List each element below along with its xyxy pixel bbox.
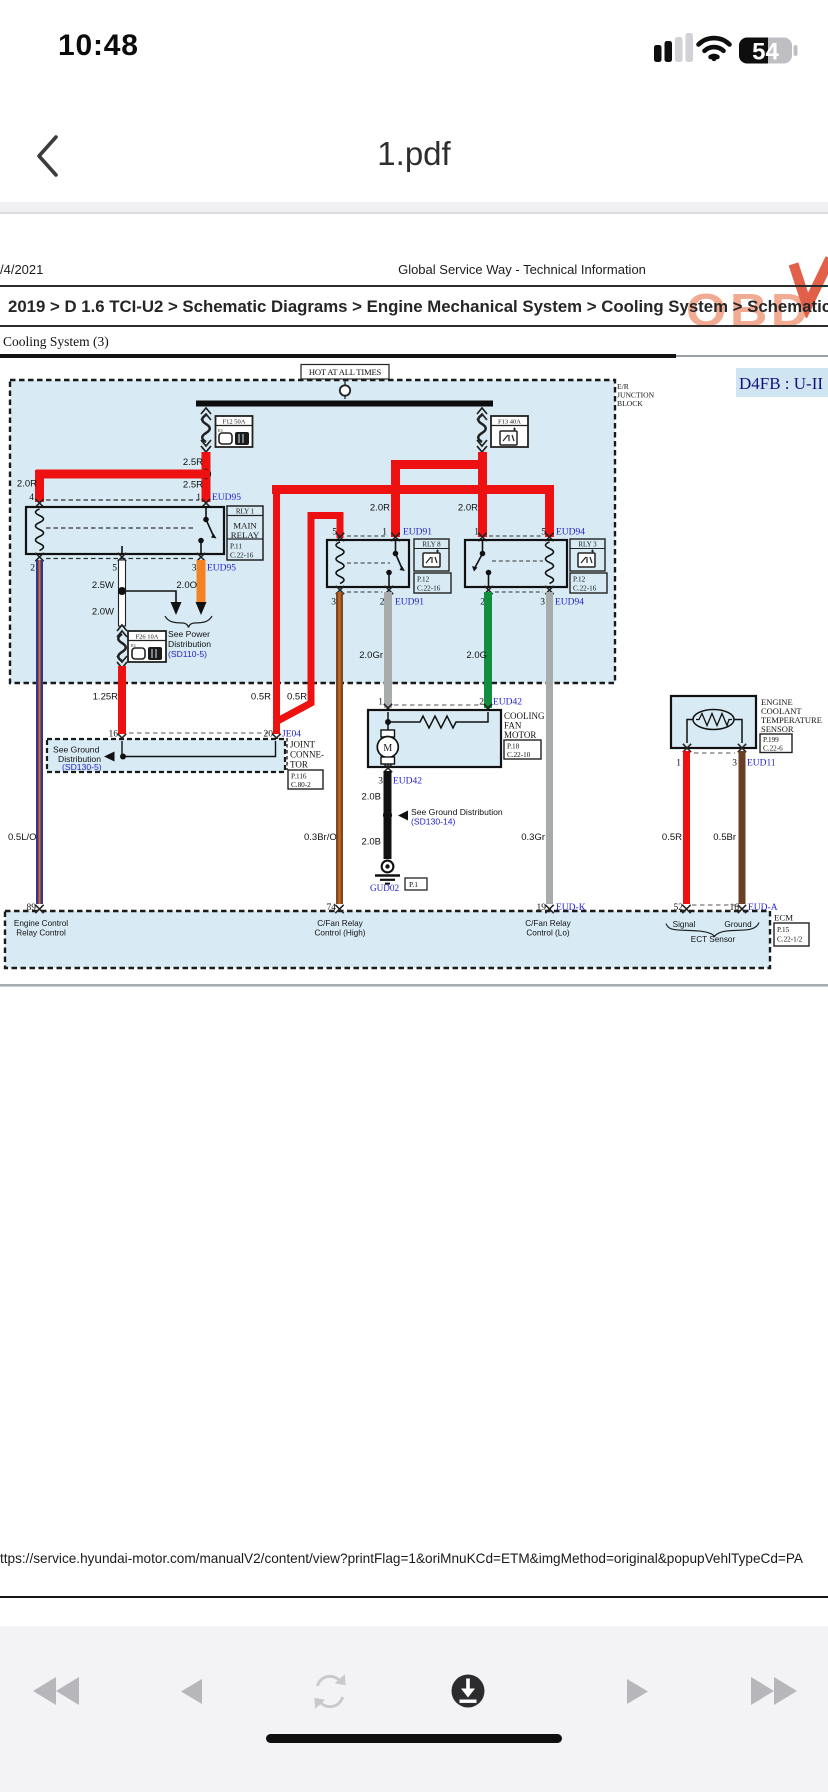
svg-text:P.116: P.116: [291, 773, 307, 781]
svg-text:0.3Br/O: 0.3Br/O: [304, 832, 337, 843]
RLY3 pins top: [474, 528, 585, 542]
svg-text:C.80-2: C.80-2: [291, 781, 311, 789]
svg-text:1: 1: [474, 528, 479, 538]
svg-text:2.0B: 2.0B: [361, 792, 381, 803]
svg-text:JOINT: JOINT: [290, 740, 315, 750]
svg-text:2.5W: 2.5W: [92, 580, 114, 591]
wire 2.5W/2.0W white: [118, 560, 126, 626]
svg-text:C.22-1/2: C.22-1/2: [777, 936, 803, 944]
svg-text:(SD130-5): (SD130-5): [62, 762, 102, 772]
svg-text:F13 40A: F13 40A: [498, 419, 521, 426]
svg-text:0.5L/O: 0.5L/O: [8, 832, 37, 843]
relay RLY3 label block: [570, 539, 607, 593]
fuse F12 50A: [201, 408, 253, 452]
svg-text:1: 1: [676, 759, 681, 769]
svg-text:EUD42: EUD42: [393, 777, 422, 787]
thermistor: [687, 710, 742, 744]
svg-text:HOT AT ALL TIMES: HOT AT ALL TIMES: [309, 367, 382, 377]
svg-text:0.3Gr: 0.3Gr: [521, 832, 545, 843]
svg-text:(SD110-5): (SD110-5): [168, 649, 207, 659]
svg-text:3: 3: [192, 564, 197, 574]
svg-text:RELAY: RELAY: [231, 530, 260, 540]
svg-text:P.15: P.15: [777, 926, 790, 934]
svg-text:C.22-6: C.22-6: [763, 745, 783, 753]
footer url: [0, 1551, 828, 1566]
ECM box: [5, 911, 770, 968]
svg-text:BLOCK: BLOCK: [617, 399, 643, 408]
footer rule: [0, 1596, 828, 1599]
wire 1.25R fuse F26 to JE04 pin 16: [118, 666, 126, 734]
ground GUD02: [370, 861, 427, 893]
svg-text:EUD94: EUD94: [556, 528, 585, 538]
nav title: [0, 135, 828, 173]
ECM pin 74: [327, 903, 344, 913]
svg-text:3: 3: [331, 598, 336, 608]
svg-text:0.5Br: 0.5Br: [713, 832, 736, 843]
ground distribution link wire: [104, 741, 276, 762]
ECM pin 89: [27, 903, 44, 913]
wire 0.5Br ECT to ECM pin 16: [739, 751, 746, 904]
red feed bus horizontal A: [272, 485, 554, 494]
motor internal resistor: [385, 712, 488, 728]
svg-text:2: 2: [30, 564, 35, 574]
svg-text:MOTOR: MOTOR: [504, 730, 536, 740]
svg-text:See Ground: See Ground: [53, 745, 100, 755]
svg-text:EUD-K: EUD-K: [556, 903, 586, 913]
status icons: [640, 30, 810, 70]
svg-text:SENSOR: SENSOR: [761, 724, 794, 734]
svg-text:2.0R: 2.0R: [458, 503, 478, 514]
svg-text:FAN: FAN: [504, 721, 522, 731]
RLY8 pins top: [332, 528, 432, 542]
svg-text:M: M: [383, 743, 392, 754]
svg-text:3: 3: [732, 759, 737, 769]
RLY8 coil: [336, 542, 344, 584]
svg-text:F26 10A: F26 10A: [136, 634, 159, 641]
node pin 4 main relay: [29, 493, 43, 507]
svg-text:Signal: Signal: [673, 920, 696, 929]
RLY3 pins bottom: [480, 586, 584, 608]
main relay coil: [36, 509, 44, 551]
svg-text:2.0W: 2.0W: [92, 607, 114, 618]
signal/ground brace: [666, 923, 759, 937]
svg-text:3: 3: [378, 777, 383, 787]
svg-text:1: 1: [378, 698, 383, 708]
relay RLY8 box: [327, 540, 409, 587]
connector dashed line JE04: [129, 732, 268, 734]
svg-text:EUD95: EUD95: [212, 493, 241, 503]
breadcrumb rules: [0, 285, 828, 287]
wire 0.5R ECT to ECM pin 52: [683, 751, 690, 904]
svg-text:(SD130-14): (SD130-14): [411, 817, 456, 827]
node pin 3 motor: [378, 764, 422, 787]
svg-text:C.22-16: C.22-16: [573, 585, 597, 593]
svg-text:2.0Gr: 2.0Gr: [359, 650, 383, 661]
see ground distribution box SD130-5: [47, 739, 285, 772]
RLY8 switch: [386, 540, 405, 587]
svg-text:JE04: JE04: [282, 730, 301, 740]
svg-text:C/Fan Relay: C/Fan Relay: [317, 919, 363, 928]
svg-text:1: 1: [196, 493, 201, 503]
svg-text:EUD42: EUD42: [493, 698, 522, 708]
svg-text:Control (High): Control (High): [315, 929, 366, 938]
page bottom divider: [0, 984, 828, 987]
main relay switch: [122, 507, 217, 554]
svg-text:EUD91: EUD91: [395, 598, 424, 608]
OBD watermark logo: [686, 283, 812, 337]
svg-text:F12 50A: F12 50A: [223, 419, 246, 426]
svg-text:See Ground Distribution: See Ground Distribution: [411, 807, 503, 817]
svg-text:Engine Control: Engine Control: [14, 919, 68, 928]
svg-text:RLY 3: RLY 3: [578, 541, 597, 549]
svg-text:RLY 8: RLY 8: [422, 541, 441, 549]
wire 2.0G RLY3 pin2 to motor pin 2: [484, 592, 492, 708]
cooling fan motor box: [368, 710, 501, 767]
svg-text:89: 89: [27, 903, 37, 913]
main relay RLY1 label block: [227, 506, 263, 560]
svg-text:5: 5: [112, 564, 117, 574]
node pin 20 JE04: [264, 730, 302, 743]
svg-text:0.5R: 0.5R: [662, 832, 682, 843]
svg-text:TOR: TOR: [290, 760, 308, 770]
see ground distribution note SD130-14: [398, 807, 503, 827]
joint connector JE04 label: [287, 738, 324, 789]
svg-text:Relay Control: Relay Control: [16, 929, 66, 938]
svg-text:P.1: P.1: [409, 880, 418, 889]
COOLING FAN MOTOR name: [504, 711, 545, 759]
pdf header center: [0, 262, 828, 277]
svg-text:P.12: P.12: [573, 576, 586, 584]
node pin 3: [192, 553, 237, 574]
main relay RLY1 box: [26, 507, 224, 554]
svg-text:C.22-16: C.22-16: [230, 552, 254, 560]
connector dashed line bottom of main relay: [46, 558, 196, 560]
svg-text:P.11: P.11: [230, 543, 242, 551]
wire 2.0Gr RLY8 pin2 to motor pin 1: [384, 592, 392, 708]
svg-text:19: 19: [537, 903, 547, 913]
svg-text:5: 5: [541, 528, 546, 538]
red drop to RLY3 coil pin 5: [545, 485, 554, 537]
svg-text:COOLING: COOLING: [504, 711, 545, 721]
wire 0.3Br/O RLY8 pin3 to ECM pin 74: [336, 592, 343, 904]
node pin 16 JE04: [109, 730, 127, 743]
wire 0.5R left drop to JE04 pin 20: [273, 486, 280, 734]
E/R junction block (blue area): [10, 380, 615, 683]
D4FB : U-II page tag: [736, 368, 828, 397]
see power distribution note: [168, 629, 211, 659]
RLY3 switch: [472, 540, 491, 587]
svg-text:GUD02: GUD02: [370, 883, 399, 893]
node pin 1 main relay: [196, 493, 241, 507]
svg-text:2.0G: 2.0G: [466, 650, 487, 661]
cooling fan motor connector line: [378, 698, 522, 713]
E/R junction block name: [617, 382, 655, 408]
svg-text:CONNE-: CONNE-: [290, 750, 324, 760]
brace under arrows: [165, 616, 212, 628]
ECT sensor name: [760, 697, 822, 753]
ECT sensor pins dashed link: [692, 904, 737, 906]
svg-text:74: 74: [327, 903, 337, 913]
svg-text:0.5R: 0.5R: [251, 692, 271, 703]
svg-text:EUD94: EUD94: [555, 598, 584, 608]
svg-text:2.0B: 2.0B: [361, 837, 381, 848]
thick rule: [0, 354, 676, 358]
wire 0.3Gr RLY3 pin3 to ECM pin 19: [546, 592, 553, 904]
svg-text:Control (Lo): Control (Lo): [526, 929, 570, 938]
ECM pin 16: [730, 903, 778, 913]
status bar time: [58, 29, 139, 63]
ECM pin 52: [674, 903, 691, 913]
ECM internal labels: [14, 919, 752, 944]
svg-text:D4FB : U-II: D4FB : U-II: [739, 374, 823, 393]
node pin 5: [112, 553, 126, 574]
relay RLY3 box: [465, 540, 567, 587]
svg-text:0.5R: 0.5R: [287, 692, 307, 703]
svg-text:EUD11: EUD11: [747, 759, 776, 769]
svg-text:EUD91: EUD91: [403, 528, 432, 538]
ECT sensor box: [671, 696, 756, 748]
svg-text:52: 52: [674, 903, 684, 913]
power bus bar: [196, 379, 493, 407]
red branch B from fuse F13: [391, 452, 487, 537]
wire 2.0R branch to main relay pin 4: [36, 470, 210, 502]
svg-text:RLY 1: RLY 1: [236, 508, 255, 516]
svg-text:2.0O: 2.0O: [176, 580, 197, 591]
motor M: [377, 722, 398, 767]
HOT AT ALL TIMES label: [301, 365, 389, 380]
nav separator band: [0, 202, 828, 214]
subtitle: [3, 334, 109, 350]
svg-text:2.5R: 2.5R: [183, 457, 203, 468]
svg-text:Distribution: Distribution: [168, 639, 211, 649]
fuse F26 10A: [117, 625, 166, 668]
svg-text:2.0R: 2.0R: [370, 503, 390, 514]
svg-text:1.25R: 1.25R: [93, 692, 118, 703]
svg-text:EUD-A: EUD-A: [748, 903, 778, 913]
schematic svg placeholder: [0, 0, 828, 1010]
pdf header date: [0, 262, 43, 277]
svg-text:3: 3: [540, 598, 545, 608]
RLY8 pins bottom: [331, 586, 424, 608]
svg-text:P.12: P.12: [417, 576, 430, 584]
svg-text:P.199: P.199: [763, 736, 779, 744]
connector dashed line top of main relay: [46, 499, 199, 501]
breadcrumb: [8, 297, 828, 317]
svg-text:See Power: See Power: [168, 629, 210, 639]
toolbar: [0, 1626, 828, 1792]
ECM name: [774, 913, 809, 947]
svg-text:ECM: ECM: [774, 913, 793, 923]
nav back chevron: [30, 132, 70, 180]
RLY3 coil: [546, 542, 554, 584]
wire 2.5R fuse F12 to main relay pin 1: [201, 452, 211, 502]
fuse F13 40A: [477, 408, 528, 452]
wire 2.0B motor to ground: [383, 771, 392, 859]
home indicator: [266, 1734, 562, 1743]
svg-text:C.22-16: C.22-16: [417, 585, 441, 593]
wire 2.0O orange from pin 3: [196, 560, 207, 615]
svg-text:4: 4: [29, 493, 34, 503]
relay RLY8 label block: [414, 539, 451, 593]
svg-text:P.18: P.18: [507, 743, 520, 751]
svg-text:ECT Sensor: ECT Sensor: [691, 935, 736, 944]
svg-text:C.22-10: C.22-10: [507, 751, 531, 759]
svg-text:2.0R: 2.0R: [17, 479, 37, 490]
svg-text:Ground: Ground: [724, 920, 752, 929]
wire 0.5L/O to ECM pin 89: [36, 560, 43, 904]
branch wire to power distribution arrow: [122, 591, 182, 615]
svg-text:2.5R: 2.5R: [183, 480, 203, 491]
svg-text:EUD95: EUD95: [207, 564, 236, 574]
wire 0.5R right from RLY8 coil: [278, 516, 341, 722]
ECT pins: [676, 744, 776, 769]
svg-text:2: 2: [479, 698, 484, 708]
node pin 2: [30, 553, 43, 574]
ECM pin 19: [537, 903, 586, 913]
svg-text:C/Fan Relay: C/Fan Relay: [525, 919, 571, 928]
